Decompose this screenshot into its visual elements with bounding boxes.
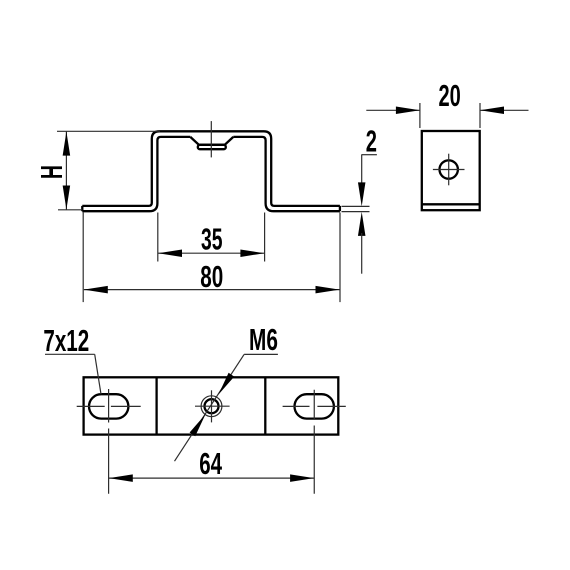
countersink dimple slants [190,137,233,145]
M6 hole crosshair vertical [211,390,213,422]
side view hole circle [440,160,458,178]
2 arrow down [358,182,366,206]
35 left extension line [157,213,159,262]
H arrow up [63,132,71,156]
2 arrow up [358,212,366,236]
80 left extension line [82,213,84,303]
left slot 7x12 [89,394,128,418]
80 arrow left [84,286,108,294]
side view hole crosshair vertical [448,154,450,186]
64 arrow right [290,474,314,482]
M6 diagonal leader [175,354,245,461]
right slot centerline horizontal [283,405,346,407]
M6 arrow lower [190,414,206,436]
2 dim line upper [361,155,363,185]
left end cap [81,206,83,211]
20 left extension line [419,103,421,128]
2 upper extension line [342,205,370,207]
H top extension line [57,130,160,132]
80 arrow right [316,286,340,294]
side view material line [422,203,480,205]
svg-text:7x12: 7x12 [43,323,89,358]
bend line right [264,377,266,434]
right end cap [339,206,341,211]
left slot centerline vertical / 64 extension [108,389,110,494]
7x12 diagonal leader [95,354,101,394]
20 dim line left tail [366,109,420,111]
side view rectangle [422,131,480,210]
64 dimension line [109,477,314,479]
20 dim line right tail [480,109,529,111]
hole centerline front view [210,121,212,157]
svg-text:H: H [36,165,70,179]
side view hole crosshair horizontal [433,169,465,171]
right slot 7x12 [295,394,334,418]
64 arrow left [109,474,133,482]
M6 hole circle [205,399,219,413]
M6 thread outer circle [201,396,222,417]
profile inner line right [233,137,340,211]
M6 arrow upper [218,373,234,395]
35 dimension line [158,252,264,254]
35 arrow left [158,249,182,257]
svg-text:80: 80 [200,259,223,294]
svg-text:20: 20 [439,78,461,113]
7x12 underline [45,353,95,355]
H dimension line [65,131,67,210]
bend line left [155,377,157,434]
80 dimension line [84,289,340,291]
H arrow down [63,186,71,210]
svg-text:64: 64 [199,446,222,481]
M6 underline [244,353,278,355]
left slot centerline horizontal [77,405,141,407]
20 right extension line [479,103,481,128]
countersink dimple bottom bar [198,145,226,149]
profile inner line left [82,137,190,211]
80 right extension line [339,213,341,303]
right slot centerline vertical / 64 extension [313,390,315,494]
35 right extension line [264,213,266,262]
20 arrow pointing right [396,107,420,115]
20 arrow pointing left [480,107,504,115]
2 lower extension line [342,211,370,213]
35 arrow right [240,249,264,257]
svg-text:M6: M6 [249,322,278,357]
profile outer line: flange top / risers / top web [82,131,340,206]
svg-text:35: 35 [201,222,223,257]
M6 hole crosshair horizontal [195,405,230,407]
2 dim line lower [361,233,363,274]
plan rectangle [84,377,339,434]
2 leader underline [361,154,377,156]
H bottom extension line [58,209,82,211]
svg-text:2: 2 [366,123,377,158]
